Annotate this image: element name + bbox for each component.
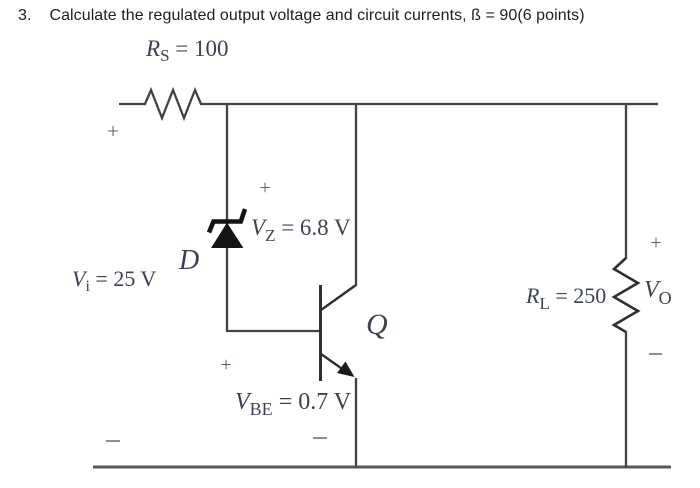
svg-text:+: + bbox=[650, 232, 661, 254]
label VO bbox=[644, 277, 672, 308]
label VZ = 6.8 V bbox=[251, 215, 351, 245]
svg-text:+: + bbox=[107, 119, 119, 143]
label RL = 250 bbox=[525, 283, 606, 313]
label VBE = 0.7 V bbox=[235, 389, 352, 419]
wire: bottom rail bbox=[93, 466, 671, 469]
svg-text:D: D bbox=[178, 245, 199, 276]
label Vi = 25 V bbox=[72, 266, 156, 295]
title text bbox=[18, 7, 585, 24]
svg-text:+: + bbox=[220, 354, 231, 376]
label RS = 100 bbox=[145, 36, 229, 65]
zener diode D bbox=[209, 209, 245, 248]
svg-text:+: + bbox=[259, 177, 270, 199]
minus input terminal bbox=[106, 440, 120, 442]
wire: right branch top bbox=[625, 104, 627, 259]
svg-text:VZ = 6.8 V: VZ = 6.8 V bbox=[251, 215, 351, 245]
minus VO bbox=[649, 353, 662, 355]
svg-text:VO: VO bbox=[644, 277, 672, 308]
wire: emitter down bbox=[355, 378, 357, 468]
svg-text:RS = 100: RS = 100 bbox=[145, 36, 229, 65]
svg-text:3. Calculate the regulated: 3. Calculate the regulated output voltag… bbox=[18, 7, 585, 24]
transistor Q bbox=[321, 285, 357, 381]
wire: right branch bottom bbox=[625, 331, 627, 468]
resistor RS bbox=[145, 90, 201, 118]
minus VBE bbox=[313, 437, 327, 439]
wire: zener branch vertical bbox=[226, 104, 228, 331]
svg-text:VBE = 0.7 V: VBE = 0.7 V bbox=[235, 389, 352, 419]
wire: top rail bbox=[200, 103, 658, 105]
svg-text:Q: Q bbox=[366, 308, 388, 341]
svg-text:Vi = 25 V: Vi = 25 V bbox=[72, 266, 156, 295]
svg-text:RL = 250: RL = 250 bbox=[525, 283, 606, 313]
resistor RL bbox=[614, 258, 638, 332]
wire: zener to base bbox=[226, 330, 321, 332]
wire: collector up bbox=[355, 104, 357, 286]
wire: input stub to RS bbox=[119, 103, 146, 105]
